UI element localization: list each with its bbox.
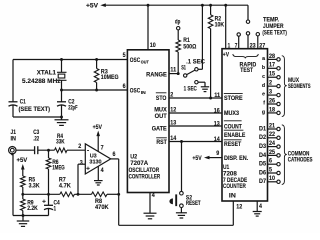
svg-text:4: 4 <box>259 203 262 210</box>
svg-text:17: 17 <box>269 62 275 69</box>
svg-text:26: 26 <box>269 97 275 104</box>
svg-text:6: 6 <box>113 151 116 158</box>
svg-text:15: 15 <box>269 71 275 78</box>
svg-text:IN: IN <box>229 193 236 200</box>
svg-text:c: c <box>262 74 265 80</box>
svg-text:D4: D4 <box>259 152 266 159</box>
svg-text:11: 11 <box>170 66 176 73</box>
svg-text:2: 2 <box>269 80 272 87</box>
svg-text:DISP. EN.: DISP. EN. <box>224 155 248 162</box>
svg-text:.22: .22 <box>33 136 39 143</box>
svg-text:25: 25 <box>269 149 275 156</box>
svg-text:3: 3 <box>269 88 272 95</box>
svg-text:14: 14 <box>214 136 220 143</box>
svg-text:6: 6 <box>269 158 272 165</box>
svg-text:d: d <box>262 83 265 89</box>
svg-text:10MEG: 10MEG <box>101 74 119 81</box>
svg-text:6: 6 <box>123 83 126 90</box>
svg-text:GATE: GATE <box>152 126 167 133</box>
svg-text:D2: D2 <box>259 134 266 141</box>
svg-text:5: 5 <box>123 52 126 59</box>
svg-text:D1: D1 <box>259 125 266 132</box>
svg-text:3.3K: 3.3K <box>29 182 40 189</box>
svg-text:SEGMENTS: SEGMENTS <box>288 83 311 90</box>
svg-text:+5V: +5V <box>192 155 202 162</box>
svg-text:4: 4 <box>101 167 104 174</box>
svg-text:STO: STO <box>156 95 167 102</box>
svg-text:16: 16 <box>214 108 220 115</box>
svg-text:27: 27 <box>259 42 265 49</box>
svg-text:13: 13 <box>214 120 220 127</box>
svg-text:XTAL1: XTAL1 <box>37 69 57 76</box>
svg-text:9: 9 <box>216 150 219 157</box>
svg-text:1: 1 <box>228 42 231 49</box>
svg-text:11: 11 <box>214 92 220 99</box>
svg-text:IN: IN <box>141 90 147 95</box>
svg-text:5.24288 MHz: 5.24288 MHz <box>22 78 61 85</box>
svg-text:10: 10 <box>269 175 275 182</box>
svg-text:1: 1 <box>54 205 57 212</box>
svg-text:e: e <box>262 92 265 98</box>
svg-text:dp: dp <box>175 18 181 25</box>
svg-text:12: 12 <box>236 203 242 210</box>
svg-text:1MEG: 1MEG <box>52 165 65 172</box>
svg-text:+5V: +5V <box>17 157 29 164</box>
svg-text:23: 23 <box>250 42 256 49</box>
svg-text:+V: +V <box>223 52 230 59</box>
svg-text:22pF: 22pF <box>68 105 77 112</box>
svg-text:g: g <box>262 110 265 116</box>
svg-text:RESET: RESET <box>224 141 241 148</box>
svg-text:D5: D5 <box>259 161 266 168</box>
svg-text:(SEE TEXT): (SEE TEXT) <box>262 29 287 36</box>
svg-text:IN: IN <box>11 136 17 143</box>
svg-text:STORE: STORE <box>224 95 243 102</box>
svg-text:RST: RST <box>156 139 167 146</box>
svg-text:+5V: +5V <box>86 4 98 10</box>
svg-text:OSC: OSC <box>130 87 141 94</box>
svg-text:3: 3 <box>80 159 83 166</box>
svg-text:RESET: RESET <box>186 200 201 207</box>
svg-text:5: 5 <box>269 166 272 173</box>
svg-text:f: f <box>263 101 265 107</box>
svg-text:2: 2 <box>170 92 173 99</box>
svg-text:(SEE TEXT): (SEE TEXT) <box>19 106 51 113</box>
svg-text:7: 7 <box>101 145 104 152</box>
svg-text:2.2K: 2.2K <box>27 205 38 212</box>
svg-text:1 SEC: 1 SEC <box>184 86 198 93</box>
svg-text:TEST: TEST <box>240 67 253 74</box>
svg-text:a: a <box>262 56 265 62</box>
svg-text:CONTROLLER: CONTROLLER <box>129 174 161 181</box>
svg-text:.1 SEC: .1 SEC <box>186 58 205 65</box>
svg-text:CATHODES: CATHODES <box>288 157 313 164</box>
svg-text:28: 28 <box>269 53 275 60</box>
svg-text:21: 21 <box>269 122 275 129</box>
svg-text:500Ω: 500Ω <box>183 43 196 50</box>
svg-text:RANGE: RANGE <box>146 71 167 78</box>
svg-text:10K: 10K <box>215 22 225 29</box>
svg-text:U3: U3 <box>90 154 98 160</box>
svg-text:4: 4 <box>152 192 155 199</box>
svg-text:2: 2 <box>78 143 81 150</box>
svg-text:C1: C1 <box>20 98 26 105</box>
svg-text:470K: 470K <box>95 204 109 211</box>
svg-text:D7: D7 <box>259 178 266 185</box>
svg-text:OSC: OSC <box>130 57 141 64</box>
svg-text:D6: D6 <box>259 169 266 176</box>
svg-text:D3: D3 <box>259 143 266 150</box>
svg-text:+: + <box>86 166 90 173</box>
svg-text:14: 14 <box>170 135 176 142</box>
svg-text:S1: S1 <box>181 65 186 72</box>
svg-text:12: 12 <box>170 107 176 114</box>
svg-text:7: 7 <box>235 42 238 49</box>
svg-text:ENABLE: ENABLE <box>224 132 245 139</box>
svg-text:18: 18 <box>269 106 275 113</box>
svg-text:OUT: OUT <box>155 113 167 120</box>
svg-text:COUNT: COUNT <box>224 123 242 130</box>
svg-text:OUT: OUT <box>141 59 149 64</box>
svg-text:3130: 3130 <box>89 160 101 166</box>
svg-text:b: b <box>262 65 265 71</box>
svg-text:10: 10 <box>150 42 156 49</box>
svg-text:22: 22 <box>269 131 275 138</box>
svg-text:MUX3: MUX3 <box>224 110 239 117</box>
svg-text:4.7K: 4.7K <box>59 182 71 189</box>
svg-text:13: 13 <box>170 120 176 127</box>
svg-text:+: + <box>42 198 46 205</box>
svg-text:24: 24 <box>269 140 275 147</box>
svg-text:33K: 33K <box>56 138 65 145</box>
svg-text:+5V: +5V <box>93 124 103 131</box>
svg-text:COUNTER: COUNTER <box>223 183 246 190</box>
